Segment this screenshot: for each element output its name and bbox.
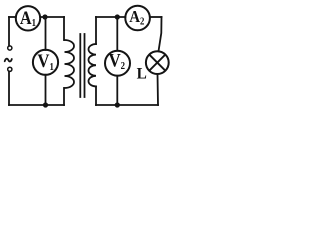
- node: junction dot top of V2: [115, 14, 120, 19]
- node: junction dot top of V1: [42, 14, 47, 19]
- wire: secondary top lead: [95, 17, 97, 44]
- wire: primary left side upper: [8, 17, 10, 46]
- node: junction dot bottom of V1: [43, 102, 48, 107]
- wire: secondary bottom lead: [95, 86, 97, 105]
- wire: secondary top segment to A2: [96, 16, 125, 18]
- transformer secondary coil: [89, 44, 97, 86]
- wire: primary top segment A1 to corner: [40, 16, 64, 18]
- AC source tilde symbol: [5, 59, 12, 62]
- wire: secondary right side to lamp: [159, 17, 162, 51]
- label V1: [37, 50, 54, 73]
- wire: primary left side lower: [8, 72, 10, 106]
- label A1: [20, 7, 36, 29]
- wire: V2 bottom branch: [116, 76, 118, 105]
- wire: V1 top branch: [45, 17, 47, 50]
- wire: transformer primary top lead: [63, 17, 65, 40]
- wire: secondary top segment A2 to corner: [150, 16, 162, 18]
- AC source terminal (bottom): [8, 67, 12, 71]
- wire: transformer primary bottom lead: [63, 88, 65, 105]
- wire: V1 bottom branch: [45, 75, 47, 105]
- voltmeter V1: [33, 50, 58, 75]
- svg-text:L: L: [137, 66, 147, 83]
- ammeter A1: [16, 6, 40, 30]
- transformer core line left: [79, 34, 81, 97]
- wire: primary bottom segment: [9, 104, 64, 106]
- wire: secondary bottom segment: [96, 104, 158, 106]
- label A2: [129, 8, 144, 27]
- voltmeter V2: [105, 51, 130, 76]
- transformer core line right: [84, 34, 86, 97]
- wire: primary top-left segment: [9, 16, 16, 18]
- node: junction dot bottom of V2: [115, 102, 120, 107]
- lamp L: [146, 51, 169, 74]
- AC source terminal (top): [8, 46, 12, 50]
- label V2: [109, 49, 126, 72]
- transformer primary coil: [65, 40, 75, 88]
- wire: lamp to bottom corner: [157, 74, 160, 105]
- ammeter A2: [125, 6, 150, 31]
- wire: V2 top branch: [116, 17, 118, 51]
